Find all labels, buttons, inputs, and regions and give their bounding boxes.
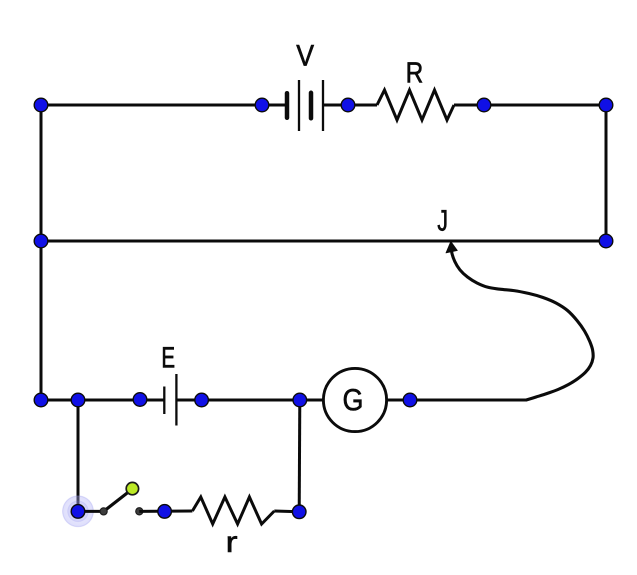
node battery V left: [255, 98, 269, 112]
battery V: [287, 80, 323, 131]
label V: [296, 45, 314, 66]
node bottom-left: [34, 393, 48, 407]
label R: [408, 62, 422, 82]
wire battery E to galvanometer: [176, 399, 324, 402]
node battery E left: [133, 393, 147, 407]
wire middle potentiometer: [41, 240, 606, 243]
switch selection halo: [62, 495, 94, 527]
wire switch branch vertical: [77, 400, 80, 512]
node battery V right: [341, 98, 355, 112]
wire resistor r to right branch: [274, 510, 299, 514]
node top-right: [599, 98, 613, 112]
node middle-left: [34, 234, 48, 248]
switch pivot dot: [100, 508, 107, 515]
node middle-right: [599, 234, 613, 248]
node galvanometer right: [403, 393, 417, 407]
wire switch node to pivot: [78, 510, 104, 513]
label G: [344, 389, 362, 411]
switch contact dot: [136, 508, 143, 515]
label r: [228, 536, 237, 552]
jockey wire: [452, 248, 594, 400]
switch knob: [126, 482, 138, 494]
wire switch contact to resistor r: [139, 510, 192, 513]
galvanometer G: [323, 368, 386, 431]
node switch branch top: [71, 393, 85, 407]
arrowhead to J: [446, 242, 457, 253]
wire galvanometer to jockey: [387, 399, 527, 402]
node switch (highlighted): [71, 505, 85, 519]
resistor R: [377, 90, 454, 120]
battery E: [164, 374, 176, 426]
node battery E right: [195, 393, 209, 407]
wire battery V to resistor R: [323, 104, 377, 107]
node top-left: [34, 98, 48, 112]
wire resistor r branch vertical: [298, 400, 302, 512]
wire bottom row left: [41, 399, 165, 402]
wire right vertical: [605, 105, 608, 241]
label J: [438, 210, 447, 231]
label E: [163, 347, 174, 367]
switch lever: [104, 490, 131, 511]
node resistor r left: [158, 505, 172, 519]
node resistor r right: [292, 505, 306, 519]
node resistor R right: [477, 98, 491, 112]
wire left vertical: [40, 105, 43, 400]
node galvanometer left: [293, 393, 307, 407]
resistor r: [192, 497, 274, 524]
wire top horizontal left segment: [41, 104, 286, 107]
wire resistor R to top-right corner: [454, 104, 606, 107]
